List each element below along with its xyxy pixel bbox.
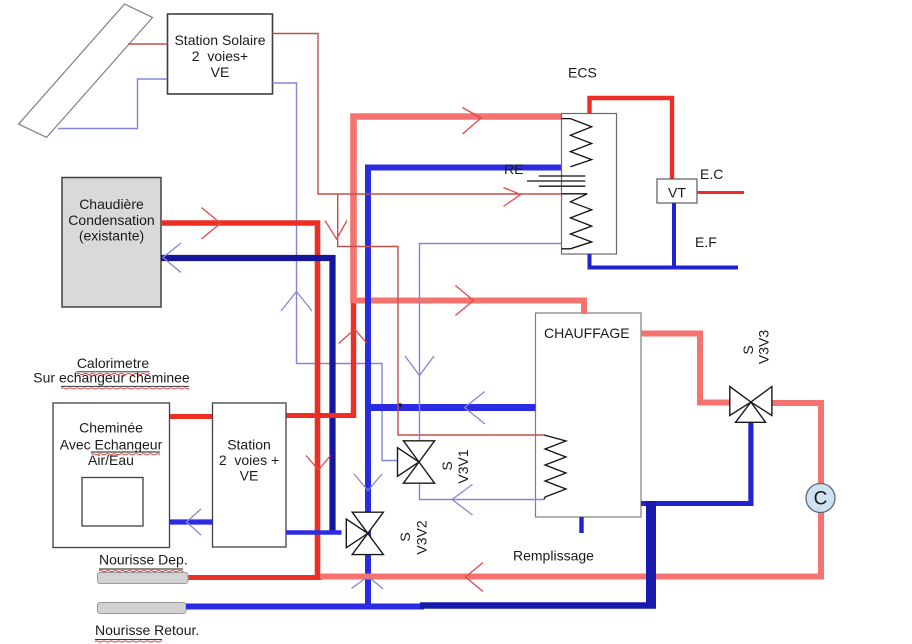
wire: boiler supply pipe (bright red) from Chaudiere right to vertical x=317 (161, 223, 318, 579)
junction dot on blue return (398, 403, 402, 407)
svg-text:Avec Echangeur: Avec Echangeur (60, 437, 163, 453)
svg-text:S: S (740, 345, 756, 354)
manifold bar Nourisse Retour (98, 603, 187, 614)
wavy underline echangeur cheminee (61, 388, 189, 389)
svg-text:Cheminée: Cheminée (79, 420, 143, 436)
arrow down on thin blue V3V1 line (405, 356, 434, 376)
svg-text:V3V3: V3V3 (756, 330, 772, 364)
wire: thick blue pipe tank to riser (RE pipe) and riser x=368 down (368, 168, 562, 607)
arrow left on cheminee blue link (187, 509, 202, 535)
valve V3V3 (3-way, horizontal) (730, 387, 772, 423)
wire: salmon riser x=353 and top feed to ECS tank (354, 117, 562, 304)
wire: blue stub under CHAUFFAGE (579, 517, 583, 533)
svg-text:RE: RE (504, 161, 523, 177)
electric element RE lines (527, 176, 585, 186)
label Nourisse Retour. with underline (95, 622, 199, 640)
svg-text:2 voies+: 2 voies+ (192, 48, 248, 64)
wire: salmon branch y=300 to CHAUFFAGE top (354, 301, 585, 315)
svg-text:(existante): (existante) (79, 228, 144, 244)
wire: blue stub Station 2 voies right to valve V3V2 (286, 530, 342, 534)
svg-text:VE: VE (211, 64, 230, 80)
wire: thick blue return CHAUFFAGE left to riser x=368 (368, 404, 536, 411)
label S V3V3 (740, 330, 772, 364)
wire: E.F cold water blue pipes under tank (590, 203, 739, 269)
wire: blue drop x=651 to bottom main (646, 501, 656, 606)
wavy underline Nourisse Retour (95, 641, 162, 642)
arrow left on thin blue coil return (452, 485, 473, 516)
solar collector panel (19, 4, 153, 137)
arrow left on blue chauffage return (465, 392, 486, 425)
coil lower heat exchanger in ECS tank (562, 194, 592, 249)
svg-text:Condensation: Condensation (68, 212, 154, 228)
label Sur echangeur cheminee with underline (33, 370, 190, 387)
wire: salmon CHAUFFAGE supply out to valve V3V3 (641, 334, 730, 403)
svg-text:Station: Station (227, 437, 271, 453)
valve V3V2 (3-way) (346, 512, 383, 554)
svg-text:E.F: E.F (695, 234, 717, 250)
wire: thin blue ECS tank return down through V3V1 to CHAUFFAGE coil (420, 244, 562, 500)
arrow right on thin red tank line (504, 188, 521, 207)
svg-text:S: S (397, 532, 413, 541)
arrow right on salmon tank feed (463, 108, 482, 135)
label S V3V2 (397, 520, 430, 554)
label E.C (700, 166, 723, 182)
wire: thin blue from Station Solaire right down x=296 to valve V3V1 (273, 83, 398, 461)
wire: blue bottom main from Nourisse Retour (186, 604, 424, 610)
box Chaudiere Condensation (boiler, grey) (62, 178, 161, 308)
svg-text:CHAUFFAGE: CHAUFFAGE (544, 325, 630, 341)
wire: blue bottom main right part to x=656 (420, 602, 656, 608)
svg-text:Remplissage: Remplissage (513, 548, 594, 564)
svg-text:C: C (814, 489, 828, 510)
label RE (504, 161, 523, 177)
label Remplissage (513, 548, 594, 564)
wire: boiler return pipe (navy) from Chaudiere right, down to y=532 (161, 258, 333, 531)
pump C (circulator) (806, 484, 835, 513)
box ECS tank (562, 114, 617, 255)
wire: thin red solar panel to Station Solaire (128, 43, 168, 45)
svg-text:Chaudière: Chaudière (79, 196, 144, 212)
arrow up on red riser x=353 (339, 329, 367, 343)
label E.F (695, 234, 717, 250)
manifold bar Nourisse Depart (98, 573, 189, 584)
wire: bright red riser segment x=353 (y 302-418) (351, 301, 356, 418)
wavy underline Echangeur (91, 454, 160, 455)
label Nourisse Dep. with underline (99, 552, 188, 570)
svg-text:Sur echangeur cheminee: Sur echangeur cheminee (33, 370, 190, 386)
coil upper heat exchanger in ECS tank (562, 119, 592, 167)
box CHAUFFAGE (heating circuit) (536, 313, 642, 517)
svg-text:ECS: ECS (568, 65, 597, 81)
label S V3V1 (439, 449, 471, 483)
svg-text:Station Solaire: Station Solaire (174, 32, 265, 48)
wire: thin red branch x=337.7 down to CHAUFFAGE coil (338, 194, 544, 435)
box Station 2 voies + VE (213, 403, 287, 547)
arrow right on salmon chauffage feed (455, 286, 473, 316)
arrow down on thin red branch (325, 221, 347, 240)
arrow up at crossing x=368 y=577 (352, 578, 384, 590)
wire: blue link Cheminee to Station 2 voies (170, 519, 213, 524)
svg-text:V3V2: V3V2 (414, 520, 430, 554)
svg-text:2 voies +: 2 voies + (219, 452, 279, 468)
svg-text:S: S (439, 461, 455, 470)
arrow right on boiler supply (202, 208, 221, 240)
svg-text:Nourisse Retour.: Nourisse Retour. (95, 622, 199, 638)
wire: red pipe ECS top to VT valve (590, 98, 673, 180)
arrow up on solar return riser (281, 292, 312, 312)
wire: blue from V3V3 bottom down (748, 422, 753, 507)
arrow down on bright red riser x=317 (306, 456, 331, 471)
label Calorimetre with underline (77, 355, 150, 372)
label ECS (568, 65, 597, 81)
arrow left on boiler return (163, 243, 181, 273)
wire: thin blue solar return panel to Station Solaire (58, 79, 167, 129)
coil heat exchanger in CHAUFFAGE (544, 435, 566, 500)
wire: salmon from V3V3 right through pump C down and left to red header (320, 403, 821, 577)
wire: thin red from Station Solaire right, down x=318, to ECS tank y=194 (273, 34, 562, 195)
wire: red link Cheminee to Station 2 voies (170, 414, 213, 419)
svg-text:VE: VE (240, 468, 259, 484)
valve V3V1 (3-way) (398, 441, 435, 483)
box Cheminee Avec Echangeur Air/Eau (53, 403, 170, 548)
wire: E.C hot water outlet red (697, 191, 744, 194)
arrow down on blue riser x=368 (354, 474, 382, 491)
wire: red link Station 2 voies right to riser x=353 (286, 413, 357, 418)
svg-text:V3V1: V3V1 (455, 449, 471, 483)
wavy underline Nourisse Dep (99, 571, 183, 572)
arrow left on salmon bottom header (466, 563, 484, 592)
wire: blue horizontal y=503.5 under CHAUFFAGE right (641, 501, 754, 506)
wavy underline Calorimetre (77, 373, 150, 374)
svg-text:E.C: E.C (700, 166, 723, 182)
svg-text:Nourisse Dep.: Nourisse Dep. (99, 552, 188, 568)
box VT (thermostatic valve) (657, 179, 697, 203)
svg-text:VT: VT (668, 185, 686, 201)
wire: nourrice depart red header segment (188, 575, 322, 580)
box Station Solaire (solar station) (168, 14, 273, 94)
